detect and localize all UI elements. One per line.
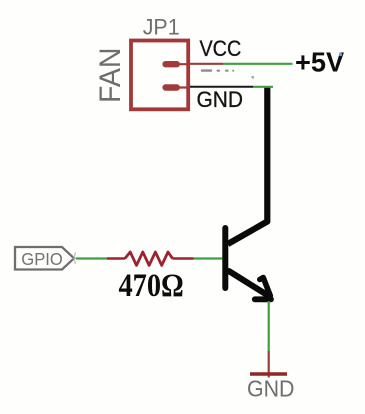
resistor R1 zigzag [125, 252, 173, 265]
wire GND pin green stub [253, 86, 273, 88]
wire VCC green to +5V [223, 63, 293, 65]
svg-text:VCC: VCC [200, 37, 242, 61]
transistor Q1 emitter stroke [229, 271, 269, 296]
resistor R1 left lead [107, 257, 125, 259]
blue dot artifact [339, 53, 342, 56]
junction tick at GPIO tip [72, 253, 78, 265]
connector JP1 body [131, 41, 188, 110]
faint dot [252, 76, 255, 79]
transistor Q1 collector stroke (hand drawn) [228, 86, 267, 244]
pin 2 GND pad [162, 84, 189, 90]
svg-text:GPIO: GPIO [21, 249, 63, 268]
wire GND pin black [190, 86, 253, 88]
transistor Q1 emitter arrow barb horizontal [255, 296, 271, 302]
wire base green [194, 257, 223, 259]
ground symbol lead [268, 351, 270, 378]
node GPIO flag [15, 247, 74, 270]
wire GPIO green left [76, 257, 107, 259]
svg-text:FAN: FAN [94, 48, 127, 103]
transistor Q1 emitter arrow barb up [260, 278, 271, 296]
pin 1 VCC pad [162, 61, 189, 67]
svg-text:470Ω: 470Ω [118, 267, 183, 303]
svg-text:+5V: +5V [295, 46, 345, 77]
ground symbol bar [250, 372, 287, 375]
wire emitter to GND green [268, 301, 270, 351]
svg-text:GND: GND [197, 86, 243, 112]
transistor Q1 base bar [222, 228, 228, 288]
wire VCC red lead [189, 63, 223, 65]
svg-text:GND: GND [247, 376, 294, 402]
erased text remnants under VCC [201, 69, 235, 71]
svg-text:JP1: JP1 [143, 14, 180, 40]
resistor R1 right lead [173, 257, 194, 259]
